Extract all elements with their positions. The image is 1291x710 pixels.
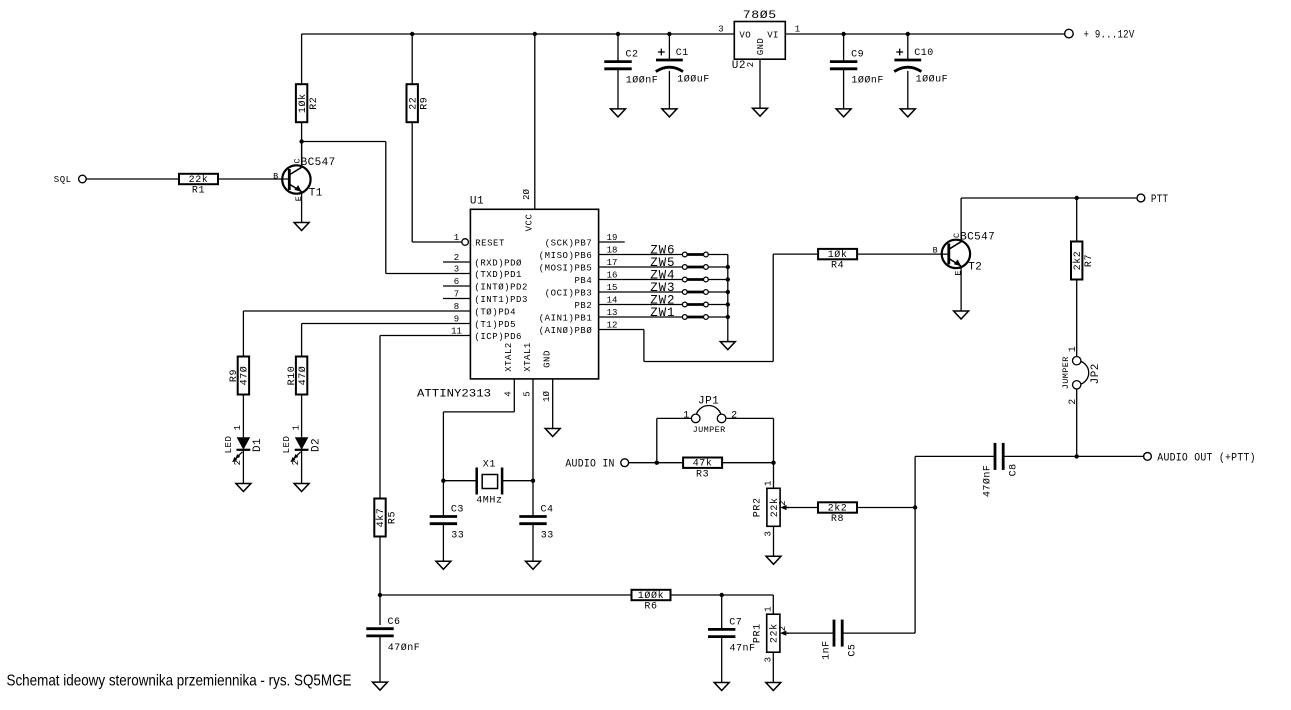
svg-text:17: 17 (607, 258, 618, 268)
svg-text:2: 2 (233, 460, 243, 465)
svg-text:47ØnF: 47ØnF (982, 465, 994, 498)
svg-text:(MISO)PB6: (MISO)PB6 (539, 251, 593, 261)
svg-text:BC547: BC547 (960, 231, 995, 243)
svg-text:Schemat ideowy sterownika prze: Schemat ideowy sterownika przemiennika -… (7, 673, 352, 690)
svg-text:VCC: VCC (524, 214, 534, 232)
svg-text:C2: C2 (626, 50, 639, 61)
svg-text:(OCI)PB3: (OCI)PB3 (545, 288, 593, 298)
svg-text:(RXD)PDØ: (RXD)PDØ (474, 258, 522, 268)
svg-text:R5: R5 (388, 511, 399, 524)
svg-text:R7: R7 (1084, 254, 1095, 267)
svg-text:ATTINY2313: ATTINY2313 (417, 389, 491, 401)
svg-text:D2: D2 (310, 438, 322, 452)
svg-text:E: E (294, 196, 304, 201)
svg-text:47nF: 47nF (730, 644, 756, 655)
svg-text:22k: 22k (189, 174, 209, 186)
svg-text:(TØ)PD4: (TØ)PD4 (474, 307, 516, 317)
svg-text:2: 2 (778, 500, 788, 505)
svg-text:R10: R10 (287, 366, 298, 386)
svg-text:VO: VO (739, 30, 751, 40)
svg-text:C4: C4 (541, 505, 554, 516)
svg-text:(MOSI)PB5: (MOSI)PB5 (539, 263, 593, 273)
svg-text:PB2: PB2 (574, 301, 592, 311)
svg-text:47ØnF: 47ØnF (388, 642, 421, 654)
svg-text:1: 1 (1068, 346, 1079, 352)
svg-text:1: 1 (291, 425, 301, 430)
svg-text:1: 1 (764, 481, 774, 486)
svg-text:JP2: JP2 (1090, 363, 1102, 384)
svg-text:2k2: 2k2 (1072, 251, 1084, 271)
svg-text:33: 33 (451, 531, 464, 542)
svg-text:C1: C1 (676, 48, 689, 59)
svg-text:(INT1)PD3: (INT1)PD3 (474, 295, 528, 305)
svg-text:(T1)PD5: (T1)PD5 (474, 320, 516, 330)
svg-text:1ØØuF: 1ØØuF (677, 74, 710, 86)
svg-text:XTAL1: XTAL1 (523, 342, 533, 372)
svg-text:C3: C3 (451, 505, 464, 516)
svg-text:C5: C5 (847, 644, 858, 657)
svg-text:(AINØ)PBØ: (AINØ)PBØ (539, 326, 593, 336)
svg-text:C9: C9 (851, 50, 864, 61)
svg-text:1Øk: 1Øk (297, 93, 309, 113)
svg-text:5: 5 (522, 391, 532, 396)
svg-text:1: 1 (683, 411, 689, 422)
svg-text:VI: VI (767, 30, 779, 40)
svg-text:15: 15 (607, 283, 618, 293)
svg-text:R9: R9 (420, 97, 431, 110)
svg-text:8: 8 (454, 302, 459, 312)
svg-text:3: 3 (763, 657, 773, 662)
svg-text:LED: LED (282, 436, 292, 454)
svg-text:(SCK)PB7: (SCK)PB7 (545, 238, 593, 248)
svg-text:47Ø: 47Ø (239, 366, 251, 386)
svg-text:(INTØ)PD2: (INTØ)PD2 (474, 282, 528, 292)
svg-text:2: 2 (291, 460, 301, 465)
svg-text:19: 19 (607, 233, 618, 243)
svg-text:9: 9 (454, 314, 459, 324)
svg-text:(TXD)PD1: (TXD)PD1 (474, 270, 522, 280)
svg-text:BC547: BC547 (301, 157, 336, 169)
svg-text:AUDIO OUT (+PTT): AUDIO OUT (+PTT) (1157, 452, 1256, 464)
svg-text:R6: R6 (644, 602, 657, 613)
svg-text:R4: R4 (831, 261, 844, 272)
svg-text:2: 2 (778, 626, 788, 631)
svg-text:R3: R3 (696, 469, 709, 480)
svg-text:PTT: PTT (1151, 194, 1169, 206)
svg-text:RESET: RESET (475, 238, 505, 248)
svg-text:AUDIO IN: AUDIO IN (565, 459, 614, 471)
svg-text:B: B (933, 246, 938, 256)
svg-text:18: 18 (607, 245, 618, 255)
svg-text:1Øk: 1Øk (828, 249, 848, 261)
svg-text:1: 1 (454, 233, 459, 243)
svg-text:+ 9...12V: + 9...12V (1084, 30, 1135, 42)
svg-text:2: 2 (731, 411, 737, 422)
svg-text:1: 1 (795, 24, 800, 34)
svg-text:JUMPER: JUMPER (693, 425, 726, 435)
svg-text:R8: R8 (831, 514, 844, 525)
svg-text:JUMPER: JUMPER (1061, 356, 1071, 389)
svg-text:C10: C10 (914, 48, 934, 59)
svg-text:1ØØnF: 1ØØnF (626, 75, 659, 87)
svg-text:7: 7 (454, 289, 459, 299)
svg-text:78Ø5: 78Ø5 (743, 10, 777, 22)
svg-text:U2: U2 (732, 60, 746, 72)
svg-text:ZW1: ZW1 (650, 306, 675, 320)
svg-text:6: 6 (454, 277, 459, 287)
svg-text:GND: GND (756, 38, 766, 55)
svg-text:E: E (954, 271, 964, 276)
svg-text:GND: GND (543, 350, 553, 368)
svg-text:22: 22 (408, 97, 419, 110)
svg-text:33: 33 (541, 531, 554, 542)
svg-text:47Ø: 47Ø (297, 366, 309, 386)
svg-text:R2: R2 (309, 97, 320, 110)
svg-text:T1: T1 (309, 187, 323, 199)
svg-text:C7: C7 (729, 618, 742, 629)
svg-text:2: 2 (746, 62, 756, 67)
svg-text:11: 11 (451, 326, 462, 336)
svg-text:3: 3 (764, 531, 774, 536)
svg-text:1ØØk: 1ØØk (638, 590, 664, 602)
svg-text:LED: LED (224, 436, 234, 454)
svg-text:1: 1 (763, 606, 773, 611)
svg-text:2k2: 2k2 (828, 503, 848, 515)
svg-text:1ØØuF: 1ØØuF (916, 74, 949, 86)
svg-text:14: 14 (607, 295, 618, 305)
svg-text:2Ø: 2Ø (522, 189, 532, 200)
svg-text:13: 13 (607, 308, 618, 318)
svg-text:PR1: PR1 (753, 623, 764, 643)
svg-text:B: B (273, 171, 278, 181)
svg-text:SQL: SQL (54, 175, 72, 185)
svg-text:1Ø: 1Ø (542, 391, 552, 402)
svg-text:C8: C8 (1008, 463, 1019, 476)
svg-text:2: 2 (454, 253, 459, 263)
svg-text:PR2: PR2 (753, 497, 764, 517)
svg-text:D1: D1 (252, 438, 264, 452)
svg-text:R9: R9 (229, 369, 240, 382)
svg-text:1ØØnF: 1ØØnF (851, 75, 884, 87)
svg-text:XTAL2: XTAL2 (504, 342, 514, 372)
svg-text:16: 16 (607, 270, 618, 280)
svg-text:T2: T2 (968, 262, 982, 274)
svg-text:3: 3 (718, 24, 723, 34)
svg-text:PB4: PB4 (574, 276, 592, 286)
svg-text:4: 4 (504, 391, 514, 396)
svg-text:JP1: JP1 (698, 396, 719, 408)
svg-text:C6: C6 (388, 617, 401, 628)
svg-text:1nF: 1nF (822, 640, 833, 660)
svg-text:47k: 47k (693, 458, 713, 470)
svg-text:12: 12 (607, 320, 618, 330)
svg-text:U1: U1 (470, 196, 484, 208)
svg-text:X1: X1 (483, 460, 496, 471)
svg-text:4MHz: 4MHz (476, 496, 502, 507)
svg-text:(ICP)PD6: (ICP)PD6 (474, 332, 522, 342)
svg-text:3: 3 (454, 264, 459, 274)
svg-text:1: 1 (233, 425, 243, 430)
svg-text:R1: R1 (192, 186, 205, 197)
svg-text:(AIN1)PB1: (AIN1)PB1 (539, 313, 593, 323)
svg-text:4k7: 4k7 (375, 508, 387, 528)
